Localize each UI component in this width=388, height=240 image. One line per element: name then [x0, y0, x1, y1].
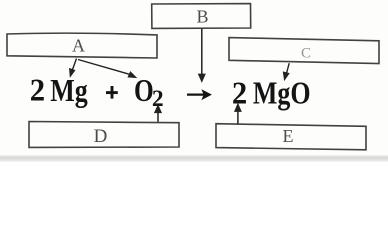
box A	[7, 33, 157, 58]
arrow from D up to subscript 2	[155, 106, 161, 122]
svg-text:2: 2	[232, 75, 247, 111]
box C	[229, 38, 379, 64]
arrow from E up to 2 of 2 MgO	[235, 105, 241, 125]
box B	[152, 4, 251, 29]
arrow from C to g of MgO	[284, 63, 290, 79]
box E	[216, 124, 366, 150]
svg-text:A: A	[72, 36, 85, 56]
svg-text:Mg: Mg	[50, 73, 88, 108]
svg-text:D: D	[94, 126, 108, 147]
arrow from B to reaction arrow	[199, 29, 205, 81]
arrow from A to O	[78, 60, 136, 78]
svg-text:E: E	[283, 126, 294, 146]
plus sign	[106, 86, 118, 99]
arrow from A to Mg	[70, 59, 77, 77]
svg-text:B: B	[196, 6, 208, 26]
svg-text:MgO: MgO	[253, 76, 311, 111]
reaction arrow	[187, 89, 212, 100]
svg-text:2: 2	[30, 72, 45, 108]
svg-text:O: O	[134, 73, 154, 108]
svg-text:C: C	[301, 46, 311, 62]
bottom scan band	[0, 155, 388, 162]
box D	[29, 122, 179, 148]
